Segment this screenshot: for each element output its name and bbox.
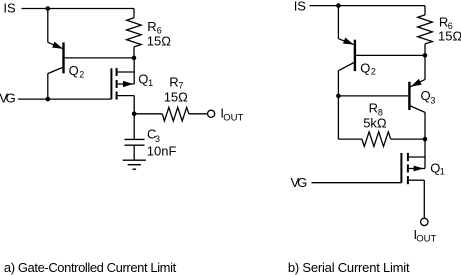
wire Q1 source to output	[423, 180, 425, 218]
wire VG rail	[18, 98, 111, 100]
resistor R6 right bottom lead	[424, 44, 426, 56]
mosfet Q1 right channel ticks	[407, 153, 409, 161]
svg-text:2: 2	[371, 67, 376, 77]
svg-text:Q: Q	[69, 63, 79, 78]
resistor R6 right zigzag	[418, 15, 433, 44]
wire to R8 left	[338, 138, 362, 140]
wire C3 to ground	[133, 145, 135, 160]
svg-text:IS: IS	[3, 1, 16, 16]
resistor R6 right top lead	[424, 6, 426, 15]
terminal circle IOUT right	[421, 218, 428, 225]
transistor Q3 collector lead	[410, 106, 425, 113]
wire R8 right to node	[391, 138, 425, 140]
wire R7 to output terminal	[189, 113, 208, 115]
mosfet Q1 right gate bar	[400, 153, 402, 183]
ground symbol	[123, 159, 146, 161]
svg-text:15Ω: 15Ω	[147, 34, 171, 49]
wire Q2 base to node right	[356, 54, 425, 56]
resistor R6 zigzag	[127, 18, 142, 47]
transistor Q2 emitter lead with arrow (PNP)	[48, 42, 63, 48]
wire node to C3	[133, 114, 135, 140]
wire VG rail right	[312, 182, 402, 184]
svg-text:3: 3	[430, 96, 435, 106]
svg-text:3: 3	[155, 134, 160, 144]
wire node to Q1 drain/body	[133, 58, 135, 84]
mosfet Q1 source lead	[118, 95, 135, 97]
wire Q2 base to node	[65, 57, 134, 59]
svg-text:R: R	[147, 19, 156, 34]
svg-text:VG: VG	[291, 175, 308, 190]
wire Q3 base rail	[338, 95, 408, 97]
svg-text:1: 1	[440, 166, 445, 176]
mosfet Q1 right source lead	[409, 179, 424, 181]
junction dot IS right	[336, 3, 341, 8]
mosfet Q1 drain lead	[118, 71, 135, 73]
svg-text:OUT: OUT	[223, 112, 243, 123]
svg-text:15Ω: 15Ω	[438, 29, 461, 44]
transistor Q3 base bar	[408, 82, 410, 110]
mosfet Q1 channel ticks	[116, 68, 118, 76]
svg-text:Q: Q	[138, 72, 148, 87]
capacitor C3 bottom plate	[125, 144, 145, 146]
mosfet Q1 right drain lead	[409, 156, 425, 158]
wire Q2 collector vertical	[47, 73, 49, 99]
resistor R8 zigzag	[362, 132, 391, 147]
svg-text:a) Gate-Controlled Current Lim: a) Gate-Controlled Current Limit	[4, 260, 177, 275]
wire IS top rail	[22, 8, 135, 10]
wire Q3 emitter vertical	[424, 55, 426, 79]
svg-text:IS: IS	[294, 0, 307, 14]
transistor Q3 emitter lead with arrow	[410, 79, 425, 86]
resistor R6 top lead	[133, 9, 135, 18]
svg-text:b) Serial Current Limit: b) Serial Current Limit	[288, 260, 410, 275]
transistor Q2 collector lead	[48, 67, 63, 73]
wire IS top rail right	[310, 5, 426, 7]
junction dot R6 right	[423, 53, 428, 58]
mosfet Q1 right body lead with arrow	[409, 168, 425, 170]
svg-text:R: R	[369, 101, 378, 116]
mosfet Q1 body lead with arrow	[118, 83, 135, 85]
svg-text:Q: Q	[360, 60, 370, 75]
svg-text:15Ω: 15Ω	[164, 89, 188, 104]
svg-text:Q: Q	[421, 88, 431, 103]
svg-text:OUT: OUT	[416, 234, 436, 245]
resistor R7 zigzag	[162, 107, 189, 121]
transistor Q2 right collector lead	[339, 63, 354, 71]
capacitor C3 top plate	[125, 138, 145, 140]
svg-text:VG: VG	[0, 91, 16, 106]
svg-text:5kΩ: 5kΩ	[363, 116, 387, 131]
svg-text:10nF: 10nF	[147, 144, 177, 159]
junction dot VG/collector	[46, 97, 51, 102]
junction dot Q2 collector/Q3 base/R8	[336, 94, 341, 99]
transistor Q2 right emitter lead with arrow	[338, 39, 353, 45]
junction dot R8/Q3 collector/Q1 drain	[423, 137, 428, 142]
wire Q3 collector vertical	[424, 112, 426, 139]
wire node to R7	[134, 113, 162, 115]
wire Q2 collector vertical right	[337, 70, 339, 96]
svg-text:2: 2	[79, 70, 84, 80]
svg-text:R: R	[169, 75, 178, 90]
transistor Q2 base bar	[62, 42, 64, 73]
terminal circle IOUT	[208, 110, 215, 117]
wire node to Q1 right drain/body	[424, 139, 426, 168]
junction dot R6/base/drain node	[132, 56, 137, 61]
mosfet Q1 gate bar	[110, 68, 112, 99]
svg-text:1: 1	[148, 78, 153, 88]
wire Q1 source vertical	[133, 96, 135, 114]
wire node down to R8	[337, 96, 339, 139]
junction dot at IS rail	[46, 6, 51, 11]
junction dot source/R7/C3 node	[132, 112, 137, 117]
wire Q2 emitter vertical right	[337, 6, 339, 39]
transistor Q2 right base bar	[354, 40, 356, 71]
resistor R6 bottom lead	[133, 47, 135, 58]
wire Q2 emitter vertical	[47, 9, 49, 43]
